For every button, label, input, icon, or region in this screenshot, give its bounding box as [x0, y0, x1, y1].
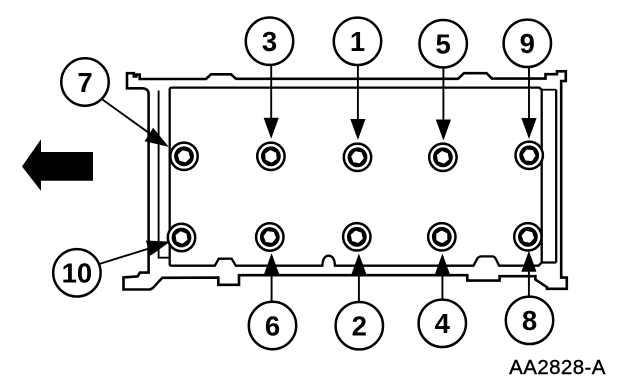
svg-text:10: 10 — [62, 258, 93, 289]
svg-text:6: 6 — [265, 310, 280, 341]
svg-text:4: 4 — [435, 308, 451, 339]
svg-text:2: 2 — [352, 311, 367, 342]
svg-text:7: 7 — [77, 67, 92, 98]
svg-text:3: 3 — [262, 26, 277, 57]
svg-text:1: 1 — [350, 26, 365, 57]
svg-text:AA2828-A: AA2828-A — [509, 356, 606, 379]
svg-text:8: 8 — [522, 305, 537, 336]
svg-text:5: 5 — [436, 29, 451, 60]
svg-text:9: 9 — [520, 28, 535, 59]
